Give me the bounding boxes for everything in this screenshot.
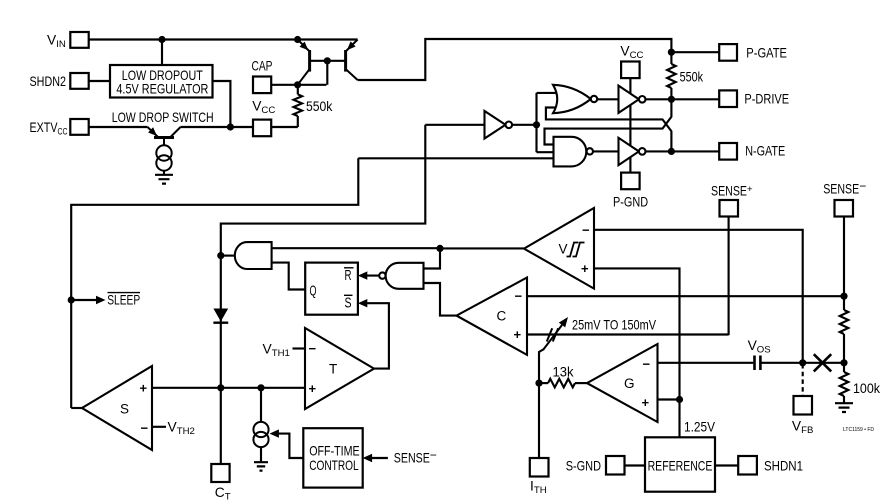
svg-text:−: − — [515, 289, 523, 304]
svg-text:SENSE+: SENSE+ — [711, 184, 753, 199]
svg-text:−: − — [141, 421, 149, 436]
svg-text:S-GND: S-GND — [566, 459, 601, 474]
svg-text:SHDN1: SHDN1 — [764, 459, 803, 474]
svg-text:13k: 13k — [553, 365, 574, 380]
svg-text:1.25V: 1.25V — [684, 420, 716, 435]
svg-text:25mV TO 150mV: 25mV TO 150mV — [572, 318, 657, 333]
svg-text:LOW DROP SWITCH: LOW DROP SWITCH — [112, 110, 214, 125]
svg-text:S: S — [345, 295, 352, 311]
svg-text:V: V — [559, 242, 568, 257]
svg-text:T: T — [329, 362, 337, 377]
svg-text:N-GATE: N-GATE — [745, 144, 785, 159]
svg-text:+: + — [309, 381, 317, 396]
svg-text:SLEEP: SLEEP — [107, 292, 140, 307]
svg-text:C: C — [497, 309, 507, 324]
svg-text:−: − — [582, 222, 590, 237]
svg-text:S: S — [120, 402, 129, 417]
svg-text:−: − — [643, 356, 651, 371]
svg-text:P-DRIVE: P-DRIVE — [744, 92, 789, 107]
svg-text:P-GATE: P-GATE — [746, 45, 787, 60]
svg-text:LTC1159 • FD: LTC1159 • FD — [843, 427, 874, 433]
svg-text:P-GND: P-GND — [613, 195, 648, 210]
svg-text:CAP: CAP — [252, 59, 273, 74]
svg-text:550k: 550k — [306, 99, 332, 114]
svg-text:OFF-TIME: OFF-TIME — [309, 443, 360, 458]
svg-text:G: G — [624, 376, 635, 391]
svg-text:+: + — [581, 261, 589, 276]
svg-text:REFERENCE: REFERENCE — [648, 459, 713, 474]
svg-text:CONTROL: CONTROL — [309, 458, 359, 473]
svg-text:+: + — [140, 381, 148, 396]
svg-text:R: R — [345, 268, 352, 284]
svg-text:SHDN2: SHDN2 — [30, 74, 67, 89]
svg-text:100k: 100k — [853, 381, 880, 396]
svg-text:Q: Q — [310, 284, 317, 300]
svg-text:+: + — [642, 395, 650, 410]
svg-text:4.5V REGULATOR: 4.5V REGULATOR — [116, 82, 208, 97]
svg-text:+: + — [514, 327, 522, 342]
svg-text:550k: 550k — [680, 70, 704, 85]
svg-text:−: − — [309, 341, 317, 356]
